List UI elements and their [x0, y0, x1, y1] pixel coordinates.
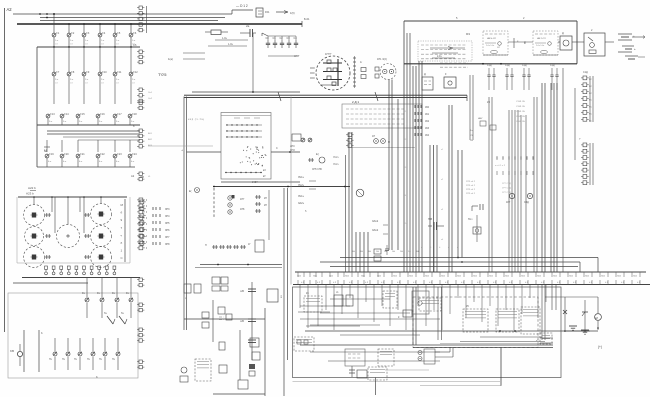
svg-text:ч3: ч3 — [441, 209, 444, 211]
svg-text:СЧ: СЧ — [470, 140, 474, 142]
svg-text:F17: F17 — [117, 113, 122, 116]
svg-text:F: F — [445, 73, 447, 76]
svg-text:б 2: б 2 — [445, 282, 449, 284]
svg-text:1(б): 1(б) — [290, 11, 295, 15]
svg-text:б 2: б 2 — [381, 282, 385, 284]
relay K0 box — [256, 8, 270, 17]
relay K21 — [483, 31, 508, 55]
label D12 — [236, 4, 248, 8]
wire r3 — [208, 43, 247, 46]
wire low h2 — [195, 267, 282, 269]
chain below K37 — [349, 366, 355, 377]
wire bundle M — [389, 80, 398, 251]
wire bottom h361 — [328, 360, 440, 362]
svg-text:Dз: Dз — [97, 292, 100, 295]
svg-text:A23 b: A23 b — [26, 192, 34, 196]
svg-text:F19: F19 — [49, 153, 54, 156]
svg-text:вУ: вУ — [263, 176, 266, 178]
connector XS10 ladder — [137, 328, 144, 342]
svg-text:Пз: Пз — [74, 359, 77, 361]
socket pair B — [372, 135, 390, 144]
svg-text:П?: П? — [279, 295, 282, 299]
relay K35 — [419, 298, 441, 311]
wire bundle A — [413, 61, 422, 272]
frame left border — [5, 7, 13, 332]
wire bundle J — [509, 110, 518, 272]
battery GB2 — [618, 46, 636, 52]
svg-text:b: b — [96, 375, 98, 379]
svg-text:ЗЧ1: ЗЧ1 — [601, 276, 606, 278]
svg-text:3-я: 3-я — [116, 121, 120, 123]
relay K36 — [294, 337, 314, 351]
svg-text:1Б2: 1Б2 — [425, 121, 430, 123]
wire mid h1 — [192, 91, 300, 93]
regulator block BR — [221, 113, 271, 180]
wire low v4 — [283, 188, 285, 396]
svg-text:ЗЧ1: ЗЧ1 — [297, 276, 302, 278]
wire low h3 — [184, 318, 265, 320]
wire link row A — [508, 41, 614, 43]
tick E glyph — [514, 38, 526, 48]
svg-text:ЗЧ1: ЗЧ1 — [585, 276, 590, 278]
svg-text:3-я: 3-я — [99, 121, 103, 123]
svg-text:Пз: Пз — [49, 359, 52, 361]
svg-text:Пз: Пз — [112, 359, 115, 361]
connector XS9 ladder — [137, 303, 144, 312]
wire bottom h331 — [305, 330, 590, 332]
gauge P6 — [91, 226, 112, 247]
wire bus 4b — [47, 133, 140, 135]
label HB — [294, 54, 300, 58]
svg-text:C4: C4 — [294, 37, 298, 40]
wire drops bottom — [300, 285, 546, 331]
switch KB — [10, 344, 23, 366]
svg-text:1ПЗ чб 2: 1ПЗ чб 2 — [466, 193, 476, 195]
wire bundle F — [551, 83, 557, 272]
svg-text:1ПЗ чб 2: 1ПЗ чб 2 — [466, 189, 476, 191]
wire right h3 — [432, 52, 458, 54]
svg-text:НВ 2-СЛ: НВ 2-СЛ — [537, 38, 546, 40]
capacitor C21 small — [385, 245, 389, 255]
svg-text:F8: F8 — [71, 71, 75, 74]
svg-text:Sч: Sч — [104, 312, 108, 315]
svg-text:2-я: 2-я — [116, 79, 120, 81]
generator G1 — [316, 52, 350, 90]
svg-text:1Г: 1Г — [248, 243, 251, 246]
wire h146 — [148, 145, 213, 147]
svg-text:М: М — [121, 203, 124, 207]
wire r2 — [215, 37, 248, 40]
socket pins — [380, 64, 396, 80]
svg-text:2-0з 1-0з: 2-0з 1-0з — [486, 45, 494, 47]
svg-text:Сп1: Сп1 — [148, 92, 153, 94]
connector XS4 ladder — [137, 101, 144, 110]
svg-text:ЗЧ1: ЗЧ1 — [617, 276, 622, 278]
label SA12b — [372, 228, 388, 234]
socket triple — [228, 195, 245, 214]
bottom cluster X13 — [219, 338, 260, 376]
svg-text:F22: F22 — [100, 153, 105, 156]
connector X2 pins — [84, 213, 90, 259]
component cluster SP5 — [308, 152, 325, 171]
svg-text:б 2: б 2 — [621, 282, 625, 284]
terminal strip labels — [297, 276, 641, 284]
svg-text:9С: 9С — [589, 86, 592, 88]
wire bundle C — [449, 75, 473, 272]
gauge P2 — [25, 227, 44, 246]
wire bus 5 — [37, 166, 135, 168]
svg-text:ЗА12: ЗА12 — [372, 219, 379, 223]
wire corner right — [576, 21, 578, 64]
svg-text:(+): (+) — [598, 345, 602, 349]
svg-text:F10: F10 — [102, 71, 107, 74]
svg-text:СЗЧ1 2Б: СЗЧ1 2Б — [516, 106, 525, 108]
wire drop to fuse row 1 — [53, 13, 132, 33]
svg-text:б 2: б 2 — [413, 282, 417, 284]
svg-text:ЗЧ1: ЗЧ1 — [633, 276, 638, 278]
wire center box left edge — [290, 97, 292, 285]
svg-text:4-я: 4-я — [48, 161, 52, 163]
wire dark h64 — [404, 63, 577, 65]
wire bundle L — [534, 97, 537, 272]
svg-text:ЗП: ЗП — [140, 175, 144, 179]
connector XS7 ladder — [137, 198, 147, 250]
wire label texts A — [516, 101, 525, 123]
svg-text:2-я: 2-я — [101, 79, 105, 81]
svg-text:Б02: Б02 — [148, 139, 153, 141]
wire bottom h341 — [460, 341, 545, 343]
terminal row XT1 — [45, 266, 116, 275]
svg-text:F12: F12 — [133, 71, 138, 74]
dash-dot column — [213, 188, 215, 217]
box bottom right dashed — [413, 297, 538, 348]
wire bottom right h — [545, 297, 598, 331]
generator G1 left pins — [310, 68, 315, 78]
component cluster APZ — [290, 134, 312, 152]
wire bottom h345 — [300, 344, 553, 346]
svg-text:9: 9 — [121, 218, 123, 222]
svg-text:1А: 1А — [376, 250, 379, 253]
relay X10 — [212, 277, 228, 291]
svg-text:ЗЧ1: ЗЧ1 — [329, 276, 334, 278]
svg-text:1-я: 1-я — [116, 40, 120, 42]
svg-text:M: M — [44, 149, 47, 153]
svg-text:б 2: б 2 — [429, 282, 433, 284]
svg-text:СЗ: СЗ — [85, 83, 88, 85]
svg-text:ЗЧ1: ЗЧ1 — [473, 276, 478, 278]
svg-text:ЗЧ1: ЗЧ1 — [537, 276, 542, 278]
svg-text:F20: F20 — [64, 153, 69, 156]
wire bottom maze — [298, 299, 440, 335]
svg-text:Е: Е — [524, 41, 526, 45]
wire r4 — [183, 52, 205, 54]
svg-text:б: б — [121, 211, 123, 215]
svg-text:Т'0'5: Т'0'5 — [158, 72, 167, 77]
cluster X16 — [180, 367, 188, 382]
wire drop pair deep — [413, 287, 442, 345]
wire bus 3 — [37, 124, 140, 126]
svg-text:ЗП8: ЗП8 — [165, 243, 170, 246]
svg-text:F3: F3 — [86, 32, 90, 35]
wire link right — [271, 147, 300, 153]
svg-text:ЗЧ1э: ЗЧ1э — [298, 195, 305, 198]
wire gauge feeds — [33, 196, 102, 233]
svg-text:б 2: б 2 — [589, 282, 593, 284]
wire bus 4a — [47, 130, 140, 132]
svg-text:2ч: 2ч — [470, 130, 472, 132]
svg-text:ЗЧ1: ЗЧ1 — [489, 276, 494, 278]
svg-text:б 2: б 2 — [317, 282, 321, 284]
svg-text:Dз: Dз — [82, 292, 85, 295]
wire right h4 — [432, 56, 455, 58]
svg-text:?: ? — [579, 138, 581, 141]
device A9 box — [412, 291, 429, 314]
box instrument cluster — [17, 197, 130, 263]
svg-text:F5: F5 — [117, 32, 121, 35]
svg-text:НВ Ч-СЛ: НВ Ч-СЛ — [487, 38, 496, 40]
wire low v1 — [212, 300, 214, 342]
connector XS6 ladder — [131, 172, 151, 181]
small boxes X12 — [202, 312, 209, 328]
svg-text:F13: F13 — [50, 113, 55, 116]
component stack U1 — [360, 58, 387, 79]
svg-text:б: б — [421, 247, 423, 249]
terminal strip bottom line — [293, 284, 650, 286]
svg-text:1ПЗ чб 2: 1ПЗ чб 2 — [466, 181, 476, 183]
svg-text:F9: F9 — [86, 71, 90, 74]
wire mid bus — [184, 92, 467, 101]
svg-text:СЗ: СЗ — [70, 83, 73, 85]
resistor R1 — [205, 30, 228, 35]
svg-text:1Б0: 1Б0 — [425, 107, 430, 109]
svg-text:б: б — [121, 241, 123, 245]
wire bundle B — [430, 145, 437, 272]
svg-text:СЗЧ1 2Б: СЗЧ1 2Б — [516, 111, 525, 113]
svg-text:1-я: 1-я — [55, 40, 59, 42]
svg-text:СЗ: СЗ — [101, 44, 104, 46]
svg-text:1(a): 1(a) — [168, 57, 173, 61]
svg-text:ЗЧ1э: ЗЧ1э — [298, 176, 305, 179]
battery GB1 — [618, 34, 645, 40]
wire bundle D — [457, 150, 463, 263]
svg-text:C2: C2 — [280, 37, 284, 40]
svg-text:б1: б1 — [148, 176, 151, 178]
svg-text:9С: 9С — [589, 114, 592, 116]
svg-text:б: б — [448, 247, 450, 249]
svg-text:К5: К5 — [466, 305, 469, 308]
terminal strip pins — [298, 272, 640, 285]
svg-text:ЗЧ1: ЗЧ1 — [505, 276, 510, 278]
svg-text:НВУ: НВУ — [478, 118, 483, 120]
connector ladder left mid — [138, 200, 146, 245]
relay twin boxes — [374, 249, 381, 261]
relay K39 — [418, 348, 453, 365]
capacitor C1 — [240, 29, 256, 92]
svg-text:СЗ: СЗ — [85, 44, 88, 46]
svg-text:— D 1 2: — D 1 2 — [236, 4, 248, 8]
connector XP1 ladder — [581, 71, 593, 122]
fuse row F13-F18 — [46, 113, 137, 125]
label ZP — [140, 175, 144, 179]
svg-text:1Б3: 1Б3 — [425, 128, 430, 130]
svg-text:б 2: б 2 — [509, 282, 513, 284]
connector ladder A — [346, 133, 415, 148]
text cluster low — [466, 181, 511, 195]
capacitor bank C05-C09 — [262, 33, 298, 56]
svg-text:C3: C3 — [287, 37, 291, 40]
svg-text:ч2: ч2 — [441, 179, 444, 181]
cluster label column — [121, 199, 126, 262]
device A6 box — [584, 29, 605, 56]
svg-text:F6: F6 — [133, 32, 137, 35]
wire low h1 — [200, 264, 282, 266]
svg-text:Sч: Sч — [121, 312, 125, 315]
svg-text:1-я: 1-я — [85, 40, 89, 42]
switch diag SB2 — [119, 312, 127, 324]
svg-text:ЗЧ1: ЗЧ1 — [457, 276, 462, 278]
svg-text:F23: F23 — [117, 153, 122, 156]
wire bus 6 — [22, 277, 140, 279]
svg-text:Е(: Е( — [189, 190, 192, 193]
svg-text:Dз: Dз — [126, 292, 129, 295]
label SA12a — [372, 219, 388, 225]
svg-text:ЗП5: ЗП5 — [165, 222, 170, 225]
relay K40 — [357, 370, 367, 378]
svg-text:2-0э: 2-0э — [437, 56, 442, 58]
wire cluster feed bus — [18, 196, 127, 198]
svg-text:П: П — [205, 244, 207, 247]
connector XP2 ladder — [579, 138, 593, 185]
svg-text:з ч б 1 э 2: з ч б 1 э 2 — [495, 165, 506, 167]
svg-text:F7: F7 — [56, 71, 60, 74]
box bottom main — [293, 287, 562, 378]
relay K43 — [496, 309, 519, 332]
svg-text:ч1: ч1 — [441, 149, 444, 151]
svg-text:С: С — [121, 256, 124, 260]
wire jog top — [232, 10, 253, 14]
gauge P3 — [24, 247, 45, 268]
svg-text:Э?: Э? — [497, 47, 501, 49]
gauge P4 center — [57, 225, 80, 248]
wire riser x37 — [36, 47, 38, 167]
svg-text:4-я: 4-я — [99, 161, 103, 163]
svg-text:Д: Д — [562, 32, 564, 35]
wire drop x501 — [385, 348, 501, 386]
chain column — [240, 282, 256, 360]
wire bundle I — [487, 97, 492, 272]
svg-text:Д: Д — [424, 73, 426, 76]
svg-text:ч: ч — [121, 233, 123, 237]
svg-text:ЗЧ1: ЗЧ1 — [425, 276, 430, 278]
wire bundle K — [521, 115, 526, 272]
svg-text:СЗ: СЗ — [116, 83, 119, 85]
relay X17 — [184, 284, 201, 300]
wire bundle H — [346, 132, 353, 272]
wire right bundle low — [542, 285, 556, 341]
svg-text:ЗЧ2э: ЗЧ2э — [298, 184, 305, 187]
svg-text:2П: 2П — [264, 198, 267, 200]
motor M2 — [595, 297, 602, 330]
svg-text:вЗ: вЗ — [263, 170, 266, 172]
svg-text:1А: 1А — [392, 250, 395, 253]
wire bus top-1 — [13, 13, 232, 15]
svg-text:1-0э: 1-0э — [222, 37, 227, 40]
svg-text:б 2: б 2 — [541, 282, 545, 284]
connector XS5 ladder — [133, 124, 153, 148]
svg-text:Е(: Е( — [316, 152, 319, 156]
relay K44 — [521, 307, 540, 334]
wire right v left — [563, 68, 575, 272]
label b — [96, 375, 98, 379]
fuse row F1-F6 — [52, 32, 137, 47]
svg-text:F1: F1 — [56, 32, 60, 35]
connector ladder right of G1 — [353, 56, 356, 88]
svg-text:4-я: 4-я — [79, 161, 83, 163]
svg-text:ЗЧ1: ЗЧ1 — [313, 276, 318, 278]
svg-text:4-я: 4-я — [63, 161, 67, 163]
svg-text:Пз: Пз — [99, 359, 102, 361]
svg-text:ч2Б: ч2Б — [240, 321, 244, 323]
svg-text:1Б1: 1Б1 — [425, 114, 430, 116]
gauge P5 — [91, 204, 112, 225]
relay K31 — [304, 292, 322, 312]
svg-text:F2: F2 — [71, 32, 75, 35]
svg-text:б: б — [439, 247, 441, 249]
svg-text:С: С — [276, 147, 278, 150]
component S44 — [468, 204, 483, 242]
svg-text:1-я: 1-я — [101, 40, 105, 42]
svg-text:1А: 1А — [360, 250, 363, 253]
socket pair C — [506, 193, 533, 204]
svg-text:ЗЧ1: ЗЧ1 — [553, 276, 558, 278]
svg-text:ЗЧ2э: ЗЧ2э — [333, 163, 339, 166]
svg-text:2a: 2a — [246, 24, 250, 28]
switch group SA1-SA4 — [82, 278, 133, 319]
wire right h seg1 — [340, 258, 598, 273]
svg-text:ч: ч — [517, 40, 519, 43]
svg-text:F24: F24 — [132, 153, 137, 156]
svg-text:7: 7 — [121, 226, 123, 230]
svg-text:б 2: б 2 — [397, 282, 401, 284]
svg-text:ЗЧ1: ЗЧ1 — [521, 276, 526, 278]
svg-text:1А: 1А — [352, 250, 355, 253]
svg-text:ЗЧ2э: ЗЧ2э — [333, 156, 339, 159]
svg-text:1Р?: 1Р? — [506, 201, 511, 204]
svg-text:A22 b: A22 b — [28, 186, 36, 190]
svg-text:3-я: 3-я — [63, 121, 67, 123]
bundle wire labels — [404, 111, 444, 241]
svg-text:1г: 1г — [360, 61, 362, 64]
svg-text:1-0э: 1-0э — [228, 43, 233, 46]
wire right h2 — [430, 47, 465, 50]
labels above strip B — [421, 247, 459, 249]
connector XS8 ladder — [137, 278, 144, 287]
wire bottom h337 — [480, 337, 542, 342]
component X11 — [218, 307, 232, 320]
label plus — [598, 345, 602, 349]
switch group SA5-SA10 — [49, 338, 120, 370]
svg-text:4-я: 4-я — [131, 161, 135, 163]
connector XS3 ladder — [137, 88, 153, 103]
svg-text:С1Д: С1Д — [550, 65, 555, 67]
svg-text:К: К — [398, 316, 400, 319]
svg-text:F01: F01 — [265, 10, 270, 14]
svg-text:⊣: ⊣ — [181, 148, 184, 152]
svg-text:б 2: б 2 — [605, 282, 609, 284]
svg-text:2 Д 1: 2 Д 1 — [352, 100, 359, 104]
svg-text:2: 2 — [591, 29, 593, 32]
connector X1 pins — [45, 213, 51, 259]
